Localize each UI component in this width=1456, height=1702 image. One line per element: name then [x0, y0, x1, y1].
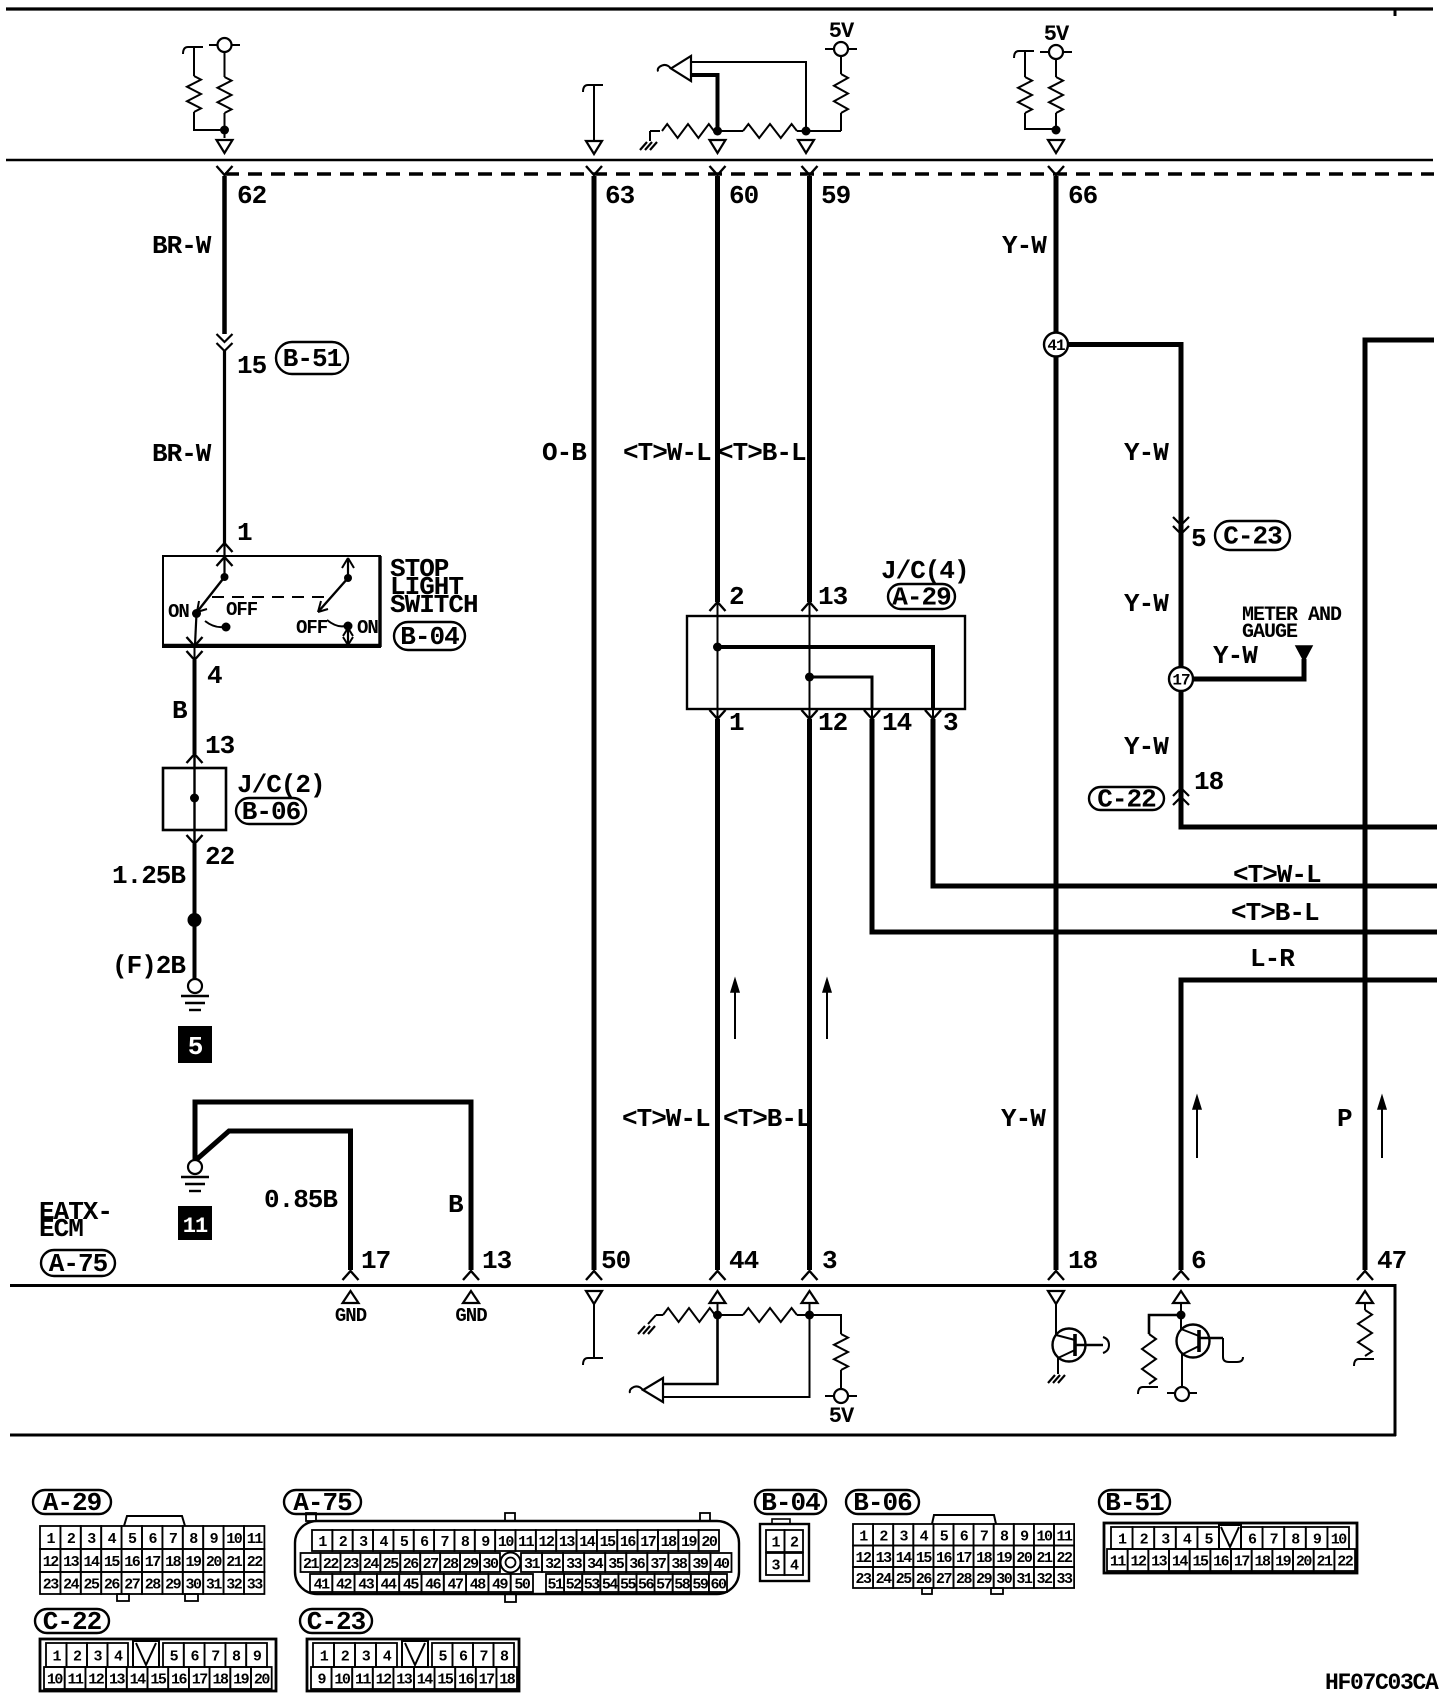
svg-text:18: 18 [976, 1550, 993, 1567]
svg-text:42: 42 [336, 1577, 353, 1594]
svg-text:14: 14 [1172, 1554, 1189, 1571]
svg-text:18: 18 [1255, 1554, 1272, 1571]
svg-text:17: 17 [1172, 672, 1190, 690]
wire O-B (63 to 50) [592, 176, 597, 1270]
ECM internal/external boundary line [6, 159, 1433, 162]
svg-text:20: 20 [254, 1672, 271, 1689]
svg-text:29: 29 [463, 1556, 480, 1573]
svg-text:BR-W: BR-W [152, 231, 212, 261]
svg-text:36: 36 [629, 1556, 646, 1573]
svg-text:15: 15 [437, 1672, 454, 1689]
switch left blade (ON position) [197, 577, 225, 612]
svg-text:13: 13 [396, 1672, 413, 1689]
svg-text:28: 28 [145, 1577, 162, 1594]
wire 0.85B to ECM pin 17 [196, 1131, 351, 1270]
J/C(2) pin 13 mark [187, 754, 203, 763]
J/C4 junction dot (pin2 node) [713, 643, 722, 652]
svg-text:22: 22 [205, 842, 235, 872]
svg-text:47: 47 [447, 1577, 463, 1594]
output arrow above pin 66 [1048, 140, 1064, 153]
comparator input wire from pin 44 node [663, 1315, 718, 1384]
stop light switch box [163, 556, 380, 647]
svg-text:10: 10 [334, 1672, 351, 1689]
svg-text:26: 26 [104, 1577, 121, 1594]
connector label A-29 (bottom) [33, 1490, 111, 1514]
connector label B-51 (bottom) [1099, 1490, 1170, 1514]
svg-text:17: 17 [640, 1534, 656, 1551]
wire P (right edge to ECM pin 47) [1365, 340, 1434, 1270]
transistor Q (pin 18 driver) [1053, 1329, 1086, 1362]
svg-text:7: 7 [1270, 1532, 1278, 1549]
J/C(4) pin 13 mark [802, 602, 818, 611]
5V supply terminal (top middle) [834, 42, 848, 56]
ECM pin 50 mark [586, 1271, 602, 1280]
svg-text:15: 15 [1193, 1554, 1210, 1571]
inline connector B-51 pin 15 [217, 334, 233, 342]
svg-text:C-22: C-22 [1097, 785, 1156, 815]
svg-text:35: 35 [608, 1556, 625, 1573]
svg-text:OFF: OFF [226, 599, 258, 621]
J/C(2) junction dot [190, 794, 199, 803]
svg-text:12: 12 [376, 1672, 393, 1689]
J/C(2) pin 22 mark [187, 835, 203, 844]
svg-text:10: 10 [498, 1534, 515, 1551]
svg-text:B-51: B-51 [1105, 1488, 1164, 1518]
resistor (pin 60 node to pin 59 node) [718, 130, 744, 132]
internal hook below pin 50 [583, 1358, 603, 1365]
svg-text:12: 12 [539, 1534, 556, 1551]
connector label A-75 [41, 1250, 115, 1276]
svg-text:21: 21 [1036, 1550, 1053, 1567]
inline connector C-23 pin 5 [1173, 517, 1189, 525]
connector label A-75 (bottom) [284, 1490, 361, 1514]
junction box J/C(2) [163, 768, 226, 830]
J/C4 pin 3 mark [932, 709, 934, 719]
svg-text:<T>W-L: <T>W-L [1233, 860, 1321, 890]
svg-text:4: 4 [207, 661, 222, 691]
svg-text:15: 15 [916, 1550, 933, 1567]
svg-text:GND: GND [335, 1305, 367, 1327]
internal circuit hook (pin 62 pull-up pair) [183, 47, 203, 54]
output arrow above pin 60 [710, 140, 726, 153]
connector C-22 [40, 1639, 276, 1691]
svg-text:18: 18 [661, 1534, 678, 1551]
transistor emitter to terminal (pin 6) [1181, 1354, 1183, 1387]
svg-text:18: 18 [212, 1672, 229, 1689]
svg-text:17: 17 [1234, 1554, 1250, 1571]
J/C4 internal link to pin 3 [718, 647, 934, 709]
connector label C-23 (bottom) [300, 1609, 372, 1633]
svg-text:Y-W: Y-W [1124, 438, 1169, 468]
connector A-75 shell [295, 1513, 739, 1602]
svg-text:10: 10 [1331, 1532, 1348, 1549]
svg-text:GND: GND [455, 1305, 487, 1327]
J/C4 pin 1 mark [710, 710, 726, 719]
svg-text:32: 32 [226, 1577, 243, 1594]
svg-text:A-75: A-75 [49, 1249, 108, 1279]
svg-text:5V: 5V [1044, 22, 1070, 47]
svg-text:21: 21 [1317, 1554, 1334, 1571]
svg-text:30: 30 [483, 1556, 500, 1573]
svg-text:1.25B: 1.25B [112, 861, 186, 891]
svg-text:A-75: A-75 [293, 1488, 352, 1518]
svg-text:27: 27 [423, 1556, 439, 1573]
svg-text:13: 13 [876, 1550, 893, 1567]
svg-text:27: 27 [124, 1577, 140, 1594]
inline connector C-22 pin 18 [1173, 788, 1189, 796]
svg-text:54: 54 [602, 1577, 619, 1594]
svg-text:16: 16 [171, 1672, 188, 1689]
input arrow below pin 47 [1357, 1291, 1373, 1303]
svg-text:B-06: B-06 [242, 797, 301, 827]
J/C4 internal link to pin 14 [810, 677, 873, 709]
svg-text:37: 37 [650, 1556, 666, 1573]
svg-text:18: 18 [165, 1554, 182, 1571]
connector B-04 [760, 1519, 809, 1581]
connector B-51 [1104, 1523, 1357, 1573]
switch mechanical link (dashed) [212, 596, 330, 598]
svg-text:25: 25 [383, 1556, 400, 1573]
svg-text:1: 1 [729, 708, 744, 738]
svg-text:49: 49 [492, 1577, 509, 1594]
svg-text:5: 5 [188, 1032, 203, 1062]
ECM pin 47 mark [1357, 1271, 1373, 1280]
svg-text:30: 30 [996, 1571, 1013, 1588]
resistor (bottom, pin44 node to ground) [663, 1308, 715, 1322]
svg-text:50: 50 [601, 1246, 631, 1276]
switch pin 4 mark [194, 645, 196, 660]
svg-text:21: 21 [303, 1556, 320, 1573]
svg-text:B-51: B-51 [283, 344, 342, 374]
junction dot pin 60 node [713, 127, 722, 136]
input arrow below pin 6 [1173, 1291, 1189, 1303]
wire B (switch to J/C2) [193, 660, 197, 754]
junction dot pin 44 node (bottom) [713, 1311, 722, 1320]
svg-text:47: 47 [1377, 1246, 1406, 1276]
up arrow beside wire 44 [734, 989, 736, 1039]
5V supply terminal (pin 66 pair) [1049, 45, 1063, 59]
chassis ground (F)2B [188, 979, 202, 993]
signal ground (comparator) [650, 130, 660, 132]
wire <T>B-L (59 to J/C4) [807, 176, 812, 602]
switch right ON contact [327, 620, 345, 626]
svg-text:58: 58 [674, 1577, 691, 1594]
svg-text:60: 60 [710, 1577, 727, 1594]
svg-text:28: 28 [443, 1556, 460, 1573]
transistor Q (pin 6 driver) [1180, 1315, 1182, 1329]
internal hook (pin 47 resistor) [1354, 1359, 1374, 1366]
svg-text:26: 26 [403, 1556, 420, 1573]
wire J/C4 pin1 to ECM pin 44 [715, 719, 720, 1270]
svg-text:19: 19 [1275, 1554, 1292, 1571]
J/C(4) pin 2 mark [710, 602, 726, 611]
pin 59 connector mark [802, 166, 818, 175]
svg-text:23: 23 [856, 1571, 873, 1588]
svg-text:OFF: OFF [296, 617, 328, 639]
wire BR-W lower [223, 351, 226, 543]
svg-text:12: 12 [88, 1672, 105, 1689]
svg-text:21: 21 [226, 1554, 243, 1571]
switch left OFF contact [205, 621, 223, 627]
svg-text:7: 7 [169, 1531, 177, 1548]
svg-text:14: 14 [130, 1672, 147, 1689]
svg-text:11: 11 [1110, 1554, 1127, 1571]
svg-text:7: 7 [441, 1534, 449, 1551]
svg-text:23: 23 [43, 1577, 60, 1594]
svg-text:16: 16 [936, 1550, 953, 1567]
svg-text:16: 16 [1213, 1554, 1230, 1571]
svg-text:(F)2B: (F)2B [112, 951, 186, 981]
J/C4 pin 12 mark [802, 710, 818, 719]
resistor (left of pin 62 pair) [193, 47, 195, 76]
splice dot on 1.25B wire [188, 913, 202, 927]
meter branch wire [1181, 659, 1304, 679]
svg-text:2: 2 [729, 582, 744, 612]
svg-text:34: 34 [587, 1556, 604, 1573]
svg-text:32: 32 [545, 1556, 562, 1573]
svg-text:22: 22 [247, 1554, 264, 1571]
svg-text:33: 33 [1057, 1571, 1074, 1588]
svg-text:15: 15 [237, 351, 267, 381]
svg-text:31: 31 [206, 1577, 223, 1594]
up arrow beside wire 47 [1381, 1106, 1383, 1158]
svg-text:19: 19 [185, 1554, 202, 1571]
svg-text:3: 3 [943, 708, 958, 738]
svg-text:15: 15 [600, 1534, 617, 1551]
svg-text:A-29: A-29 [43, 1488, 102, 1518]
svg-text:48: 48 [470, 1577, 487, 1594]
svg-text:10: 10 [226, 1531, 243, 1548]
svg-text:63: 63 [605, 181, 635, 211]
resistor (bottom, between nodes) [718, 1314, 744, 1316]
connector B-06 pin grid [853, 1515, 1074, 1594]
svg-text:6: 6 [1191, 1246, 1206, 1276]
svg-text:<T>W-L: <T>W-L [622, 1104, 710, 1134]
internal hook (pin 6 resistor) [1138, 1387, 1158, 1394]
svg-text:P: P [1337, 1104, 1352, 1134]
wire L-R (right edge to ECM pin 6) [1181, 980, 1437, 1270]
svg-text:11: 11 [1057, 1528, 1074, 1545]
svg-text:11: 11 [355, 1672, 372, 1689]
svg-text:Y-W: Y-W [1002, 231, 1047, 261]
svg-text:B-04: B-04 [400, 622, 459, 652]
svg-text:20: 20 [1296, 1554, 1313, 1571]
ground point 11 (black box) [179, 1207, 211, 1239]
svg-text:26: 26 [916, 1571, 933, 1588]
svg-text:7: 7 [479, 1649, 487, 1666]
svg-text:38: 38 [671, 1556, 688, 1573]
svg-text:55: 55 [620, 1577, 637, 1594]
svg-text:18: 18 [1194, 767, 1224, 797]
svg-text:15: 15 [104, 1554, 121, 1571]
connector label C-22 [1089, 787, 1164, 810]
pull-up resistor to 5V (bottom) [810, 1315, 842, 1334]
ground point 5 (black box) [179, 1027, 211, 1062]
resistor (left of pin 66 pair) [1024, 51, 1026, 77]
svg-text:B: B [172, 696, 188, 726]
svg-text:Y-W: Y-W [1124, 732, 1169, 762]
svg-text:11: 11 [247, 1531, 264, 1548]
svg-text:17: 17 [956, 1550, 972, 1567]
svg-text:BR-W: BR-W [152, 439, 212, 469]
switch left pole exit wire [195, 614, 197, 646]
output arrow above pin 59 [798, 140, 814, 153]
comparator output wire (thick) to pin 60 node [691, 75, 718, 131]
svg-text:ECM: ECM [39, 1214, 83, 1244]
connector A-75 pin grid [301, 1530, 732, 1594]
connector label B-06 (bottom) [846, 1490, 919, 1514]
svg-text:13: 13 [1151, 1554, 1168, 1571]
connector C-23 [307, 1639, 519, 1691]
svg-text:17: 17 [479, 1672, 495, 1689]
svg-text:24: 24 [876, 1571, 893, 1588]
wire J/C4 pin14 to right edge <T>B-L [872, 719, 1437, 932]
connector A-29 pin grid [40, 1516, 264, 1601]
svg-text:Y-W: Y-W [1213, 641, 1258, 671]
svg-text:27: 27 [936, 1571, 952, 1588]
svg-text:41: 41 [314, 1577, 331, 1594]
ECM top border line [6, 7, 1433, 10]
op-amp comparator (bottom) [643, 1378, 663, 1402]
circled splice 41 [1044, 333, 1068, 357]
transistor emitter to ground (pin 18) [1057, 1358, 1059, 1374]
svg-text:30: 30 [185, 1577, 202, 1594]
pin 66 connector mark [1048, 166, 1064, 175]
junction box J/C(4) [687, 616, 965, 709]
svg-text:57: 57 [656, 1577, 672, 1594]
svg-text:20: 20 [701, 1534, 718, 1551]
5V supply terminal (bottom) [834, 1389, 848, 1403]
svg-text:11: 11 [518, 1534, 535, 1551]
svg-text:31: 31 [524, 1556, 541, 1573]
input arrow below pin 44 [710, 1291, 726, 1303]
svg-text:13: 13 [482, 1246, 512, 1276]
GND triangle pin 17 [343, 1291, 359, 1303]
svg-text:56: 56 [638, 1577, 655, 1594]
switch right pole arrow (double) [347, 558, 349, 578]
svg-text:25: 25 [896, 1571, 913, 1588]
svg-text:23: 23 [343, 1556, 360, 1573]
svg-text:16: 16 [124, 1554, 141, 1571]
svg-text:ON: ON [357, 617, 378, 639]
svg-text:14: 14 [579, 1534, 596, 1551]
svg-text:J/C(4): J/C(4) [881, 556, 969, 586]
output arrow above pin 63 [586, 141, 602, 154]
svg-text:17: 17 [361, 1246, 390, 1276]
svg-text:10: 10 [1036, 1528, 1053, 1545]
J/C4 internal wire pin13 [809, 602, 811, 719]
svg-text:16: 16 [458, 1672, 475, 1689]
internal resistor (pin 47) [1358, 1310, 1372, 1356]
wire B to ECM pin 13 [195, 1102, 471, 1270]
ECM pin 13 mark [463, 1271, 479, 1280]
EATX-ECM box bottom line [10, 1434, 1396, 1437]
junction dot above pin 66 [1052, 126, 1061, 135]
svg-text:5: 5 [1191, 524, 1206, 554]
svg-text:22: 22 [1057, 1550, 1074, 1567]
svg-text:29: 29 [976, 1571, 993, 1588]
svg-text:13: 13 [559, 1534, 576, 1551]
svg-text:14: 14 [83, 1554, 100, 1571]
svg-text:7: 7 [980, 1528, 988, 1545]
svg-text:22: 22 [1337, 1554, 1354, 1571]
connector label B-04 (bottom) [755, 1490, 826, 1514]
svg-text:B-04: B-04 [761, 1488, 820, 1518]
op-amp comparator (top) [671, 56, 691, 81]
input arrow below pin 18 [1048, 1291, 1064, 1304]
svg-text:32: 32 [1036, 1571, 1053, 1588]
connector label B-06 [236, 798, 306, 824]
J/C4 junction dot (pin13 node) [805, 673, 814, 682]
svg-text:3: 3 [822, 1246, 837, 1276]
svg-text:53: 53 [584, 1577, 601, 1594]
svg-text:<T>W-L: <T>W-L [623, 438, 711, 468]
svg-text:Y-W: Y-W [1001, 1104, 1046, 1134]
svg-text:28: 28 [956, 1571, 973, 1588]
ECM top border tick [1394, 9, 1397, 16]
svg-text:62: 62 [237, 181, 267, 211]
svg-text:Y-W: Y-W [1124, 589, 1169, 619]
wire Y-W (66 to 18) [1054, 176, 1059, 1270]
junction dot pin 6 node [1177, 1311, 1186, 1320]
comparator input wire from pin 3 node [663, 1315, 810, 1397]
svg-text:39: 39 [692, 1556, 709, 1573]
svg-text:11: 11 [68, 1672, 85, 1689]
svg-text:5V: 5V [829, 1404, 855, 1429]
svg-text:52: 52 [566, 1577, 583, 1594]
pull-up resistor to 5V (top) [806, 130, 841, 132]
svg-text:14: 14 [896, 1550, 913, 1567]
connector label B-51 [276, 342, 348, 374]
svg-text:19: 19 [233, 1672, 250, 1689]
svg-text:13: 13 [63, 1554, 80, 1571]
resistor (ground to pin 60 node) [662, 124, 714, 138]
svg-text:33: 33 [247, 1577, 264, 1594]
wire J/C4 pin12 to ECM pin 3 [807, 719, 812, 1270]
svg-text:16: 16 [620, 1534, 637, 1551]
svg-text:19: 19 [996, 1550, 1013, 1567]
svg-text:17: 17 [192, 1672, 208, 1689]
svg-text:C-23: C-23 [1223, 522, 1282, 552]
svg-text:12: 12 [818, 708, 848, 738]
svg-text:11: 11 [183, 1214, 208, 1239]
svg-text:25: 25 [83, 1577, 100, 1594]
svg-text:5V: 5V [829, 19, 855, 44]
internal hook (pin 66 pair) [1014, 51, 1034, 58]
svg-text:14: 14 [882, 708, 912, 738]
EATX-ECM box top line [10, 1284, 1396, 1287]
input arrow below pin 3 [802, 1291, 818, 1303]
pull-up resistor (pin 6) [1149, 1315, 1181, 1334]
resistor (right of pin 62 pair) [224, 52, 226, 77]
svg-text:17: 17 [145, 1554, 161, 1571]
svg-text:51: 51 [548, 1577, 565, 1594]
svg-text:12: 12 [43, 1554, 60, 1571]
splice 41 branch wire [1056, 345, 1437, 828]
svg-text:66: 66 [1068, 181, 1098, 211]
J/C4 pin 14 mark [871, 709, 873, 719]
svg-text:0.85B: 0.85B [264, 1185, 338, 1215]
svg-text:46: 46 [425, 1577, 442, 1594]
switch left pole wire [223, 543, 225, 577]
svg-text:45: 45 [403, 1577, 420, 1594]
svg-text:20: 20 [1016, 1550, 1033, 1567]
up arrow beside wire 6 [1196, 1106, 1198, 1158]
junction dot pin 3 node (bottom) [805, 1311, 814, 1320]
svg-text:43: 43 [358, 1577, 375, 1594]
svg-text:13: 13 [205, 731, 235, 761]
svg-text:14: 14 [417, 1672, 434, 1689]
